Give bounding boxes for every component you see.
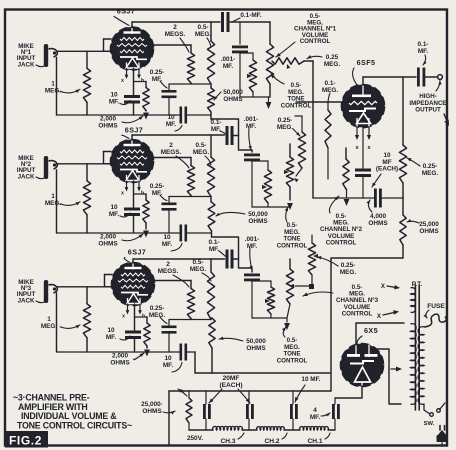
svg-text:50,000: 50,000 <box>248 211 268 218</box>
svg-text:OHMS: OHMS <box>368 220 388 227</box>
svg-text:2: 2 <box>166 261 170 268</box>
label 10 MF cathode 2 <box>109 204 130 218</box>
resistor 25,000 OHMS right <box>400 198 406 258</box>
capacitor .001-MF ch2 <box>244 154 260 208</box>
svg-text:FUSE: FUSE <box>427 303 445 310</box>
rail wire ch2 <box>132 134 225 136</box>
label 0.25 stage 3 <box>149 305 167 324</box>
svg-text:MEG.: MEG. <box>193 149 210 156</box>
svg-text:0.1-: 0.1- <box>417 41 428 48</box>
fuse symbol <box>424 314 446 327</box>
tube 6SF5 <box>342 85 385 128</box>
capacitor 10MF c <box>290 391 298 430</box>
svg-text:1: 1 <box>51 193 55 200</box>
svg-text:25,000·: 25,000· <box>141 401 163 408</box>
wire chain x211 st3 bottom <box>209 318 215 373</box>
capacitor 0.1-MF ch3 <box>226 250 239 269</box>
label 0.5-MEG stage 3 <box>190 259 211 281</box>
svg-text:MF.: MF. <box>166 121 177 128</box>
capacitor 0.1-MF ch1 coupling <box>221 12 270 32</box>
svg-text:1: 1 <box>51 80 55 87</box>
resistor 0.5-MEG plate stage 2 <box>207 135 214 197</box>
svg-text:10: 10 <box>110 204 118 211</box>
label 10 MF cathode 3 <box>106 327 130 341</box>
capacitor 10 MF cathode stage 2 <box>124 181 140 233</box>
label P.T. <box>412 281 423 288</box>
wire screen to 2MEGS <box>148 158 191 166</box>
resistor 2 MEGS stage 2 <box>187 166 194 197</box>
svg-text:x: x <box>122 314 125 320</box>
resistor 50,000 OHMS ch3 mid <box>252 281 275 318</box>
svg-text:CONTROL: CONTROL <box>342 310 373 317</box>
svg-text:CH.1: CH.1 <box>307 438 322 445</box>
svg-text:25,000: 25,000 <box>419 221 439 228</box>
mike input jack J1 <box>44 44 58 67</box>
label 2 MEGS stage 1 <box>165 24 189 52</box>
svg-text:6SJ7: 6SJ7 <box>125 126 143 135</box>
svg-text:P.T.: P.T. <box>412 281 423 288</box>
label 0.5-MEG stage 1 <box>195 24 212 47</box>
label 0.25-MEG ch2 <box>277 117 300 136</box>
wiper arrow ch1 <box>266 97 272 109</box>
svg-text:(EACH): (EACH) <box>376 166 398 173</box>
svg-text:OHMS: OHMS <box>419 228 439 235</box>
svg-text:MEGS.: MEGS. <box>161 149 182 156</box>
heater leads x h <box>122 304 145 320</box>
svg-text:10 MF.: 10 MF. <box>301 376 320 383</box>
svg-text:MF.: MF. <box>162 241 173 248</box>
caption text <box>13 393 132 431</box>
resistor 25,000 OHMS pot <box>178 389 192 430</box>
choke CH.3 <box>213 426 243 430</box>
choke CH.1 <box>300 427 329 430</box>
capacitor .001-MF ch3 <box>244 274 260 319</box>
svg-text:MEG.: MEG. <box>277 124 294 131</box>
wire screen bottom tie <box>169 319 211 321</box>
svg-text:SW.: SW. <box>424 421 435 427</box>
label 10 MF EACH <box>372 152 398 187</box>
svg-text:CONTROL: CONTROL <box>326 239 357 246</box>
svg-text:0.25-: 0.25- <box>278 117 293 124</box>
label 10 MF coupling 2 <box>162 234 182 251</box>
bus wire stage 1 bottom <box>57 114 180 116</box>
svg-text:JACK: JACK <box>18 61 35 68</box>
svg-text:OHMS: OHMS <box>98 241 118 248</box>
wire screen to 2MEGS <box>149 281 191 289</box>
svg-text:0.25-: 0.25- <box>150 69 165 76</box>
svg-text:x: x <box>367 145 371 151</box>
power plug <box>437 426 448 447</box>
svg-text:OHMS: OHMS <box>246 345 266 352</box>
resistor 2000 OHMS stage 1 <box>143 82 149 120</box>
svg-text:MEGS.: MEGS. <box>165 31 186 38</box>
svg-text:MF.: MF. <box>106 334 117 341</box>
x mark HV2 <box>377 310 399 320</box>
label 0.1-MF ch3 <box>208 239 225 256</box>
svg-text:x: x <box>121 191 124 197</box>
svg-text:10: 10 <box>107 327 115 334</box>
svg-text:6SF5: 6SF5 <box>357 58 376 67</box>
label 10 MF bottom <box>295 376 321 402</box>
heater leads x h <box>121 69 144 85</box>
svg-text:OHMS: OHMS <box>248 218 268 225</box>
bus wire y198 <box>313 197 403 199</box>
capacitor 10 MF coupling stage 3 <box>180 344 196 361</box>
svg-text:6X5: 6X5 <box>364 326 378 335</box>
svg-text:MEG.: MEG. <box>45 87 62 94</box>
label channel3 volume control <box>303 284 379 317</box>
resistor 50,000 OHMS ch1 chain <box>208 84 215 119</box>
resistor 0.1-MEG grid leak <box>325 102 331 179</box>
label 6SF5 <box>353 58 376 85</box>
svg-text:OHMS: OHMS <box>110 360 130 367</box>
wire elbow ch1 to ch2 column <box>211 119 252 152</box>
label 6SJ7 V2 <box>122 126 143 139</box>
svg-text:CH.2: CH.2 <box>264 438 279 445</box>
label 0.1-MF ch2 <box>210 119 225 134</box>
svg-text:0.25-: 0.25- <box>150 305 165 312</box>
wire screen bottom tie <box>169 83 211 85</box>
resistor 1 MEG stage 3 <box>83 287 90 352</box>
resistor 0.5-MEG plate stage 1 <box>207 22 214 84</box>
label MIKE NO3 INPUT JACK <box>17 279 46 304</box>
wire B- box <box>331 258 403 391</box>
label 4 MF <box>310 407 330 421</box>
label MIKE NO1 INPUT JACK <box>17 43 46 68</box>
label 25,000 OHMS bottom <box>141 401 175 415</box>
transformer core <box>415 285 419 410</box>
wire 6X5 cathode out <box>335 387 362 399</box>
label 2,000 OHMS stage 2 <box>98 234 143 248</box>
svg-text:x: x <box>121 78 124 84</box>
svg-text:.001-: .001- <box>221 56 236 63</box>
label channel2 volume control <box>320 196 363 246</box>
label 0.25 MEG ch1 <box>307 54 340 68</box>
arrow to winding <box>391 366 402 371</box>
label 50,000 OHMS ch1 <box>214 89 243 103</box>
svg-text:CH.3: CH.3 <box>220 438 235 445</box>
svg-text:MF.: MF. <box>211 126 222 133</box>
svg-text:2: 2 <box>169 142 173 149</box>
label 4,000 OHMS <box>366 200 388 227</box>
resistor volume control ch2 0.5meg <box>343 148 350 206</box>
resistor 0.5-MEG plate stage 3 <box>207 259 214 320</box>
label 1 MEG stage 1 <box>45 80 80 94</box>
label .001-MF ch3 <box>245 236 260 270</box>
resistor 0.25-MEG ch2 <box>294 116 306 182</box>
capacitor 0.25-MF stage 2 <box>162 197 177 234</box>
svg-text:MF.: MF. <box>310 414 321 421</box>
svg-text:MF.: MF. <box>109 211 120 218</box>
svg-text:0.1-MF.: 0.1-MF. <box>240 12 262 19</box>
capacitor 10MF vertical <box>374 189 382 208</box>
label 50,000 OHMS ch3 <box>219 337 266 352</box>
svg-text:2,000: 2,000 <box>100 116 116 123</box>
label 0.5-MEG stage 2 <box>193 142 211 165</box>
svg-text:MF.: MF. <box>109 99 120 106</box>
switch SW <box>430 403 445 416</box>
wire plate pin <box>132 259 134 263</box>
rail wire ch3 <box>133 258 225 260</box>
wire cathode junction <box>134 81 147 83</box>
svg-text:50,000: 50,000 <box>246 338 266 345</box>
svg-text:10: 10 <box>167 114 175 121</box>
label 6X5 <box>357 326 378 346</box>
label 0.25-MEG right <box>407 158 438 177</box>
label 10 MF coupling 1 <box>166 114 182 131</box>
svg-text:10: 10 <box>110 92 118 99</box>
svg-text:MF.: MF. <box>418 48 429 55</box>
svg-text:50,000: 50,000 <box>223 89 243 96</box>
resistor 50,000 OHMS ch1 <box>240 53 257 97</box>
wire 6X5 plate top <box>356 323 404 345</box>
wire cathode junction <box>134 193 147 195</box>
svg-text:MF.: MF. <box>247 243 258 250</box>
svg-text:x: x <box>355 145 359 151</box>
svg-text:6SJ7: 6SJ7 <box>117 7 135 16</box>
svg-text:250V.: 250V. <box>187 435 203 442</box>
label 0.25 stage 2 <box>150 183 167 201</box>
capacitor 10 MF coupling stage 1 <box>180 107 212 124</box>
resistor 50,000 OHMS ch2 chain <box>208 197 215 238</box>
svg-text:1: 1 <box>47 316 51 323</box>
heater leads x h <box>121 181 144 197</box>
bus wire stage 2 bottom <box>57 232 180 234</box>
svg-text:X: X <box>377 313 382 320</box>
label tone control ch2 <box>277 207 308 249</box>
output ground pin <box>444 114 449 126</box>
svg-text:0.25-: 0.25- <box>150 183 165 190</box>
svg-text:6SJ7: 6SJ7 <box>128 248 146 257</box>
capacitor 20MF a <box>203 391 211 430</box>
capacitor 10 MF cathode stage 1 <box>124 69 140 116</box>
label 20MF EACH <box>209 375 250 403</box>
label 6SJ7 V3 <box>124 248 146 263</box>
svg-text:OUTPUT: OUTPUT <box>415 107 441 114</box>
svg-text:MF.: MF. <box>163 362 174 369</box>
label tone control ch3 <box>277 327 308 364</box>
svg-text:MEG.: MEG. <box>340 269 357 276</box>
resistor tone control ch3 <box>284 259 294 330</box>
label 1 MEG stage 2 <box>45 193 80 207</box>
wire screen to 2MEGS <box>148 45 191 53</box>
svg-text:0.1-: 0.1- <box>324 80 335 87</box>
capacitor 20MF b <box>246 391 254 430</box>
resistor volume control ch1 0.5-MEG <box>266 22 273 97</box>
svg-text:CONTROL: CONTROL <box>300 38 331 45</box>
label MIKE NO2 INPUT JACK <box>17 155 46 180</box>
capacitor .001-MF ch1 <box>232 46 248 98</box>
capacitor 10 MF cathode stage 3 <box>125 304 141 352</box>
svg-text:CONTROL: CONTROL <box>277 357 308 364</box>
capacitor 0.25-MF stage 1 <box>162 84 177 115</box>
label .001-MF ch1 <box>221 56 236 70</box>
label 0.1-MF output <box>417 41 428 65</box>
svg-text:MF.: MF. <box>246 123 257 130</box>
wire 6SF5 grid <box>296 101 342 103</box>
resistor tone pot 0.25 MEG ch1 horizontal <box>272 58 304 69</box>
svg-text:.001-: .001- <box>245 236 260 243</box>
tube 6SJ7 V1 <box>111 27 154 70</box>
FIG.2 box <box>5 431 48 448</box>
svg-text:OHMS: OHMS <box>142 408 162 415</box>
svg-text:MEG.: MEG. <box>149 312 166 319</box>
wire tone to grid x313 <box>304 61 313 198</box>
bus wire stage 3 bottom <box>57 351 180 353</box>
wire cathode junction <box>135 316 148 318</box>
svg-text:2,000: 2,000 <box>100 234 116 241</box>
mike input jack J2 <box>44 156 58 179</box>
wire st3 output to box <box>195 352 331 373</box>
label 0.1-MF ch1 <box>233 12 262 22</box>
svg-text:CONTROL: CONTROL <box>281 102 312 109</box>
resistor 2 MEGS stage 1 <box>187 53 194 84</box>
label 2,000 OHMS stage 3 <box>110 353 144 367</box>
label 6SJ7 V1 <box>114 7 135 26</box>
label CH.2 <box>264 433 287 445</box>
wire jack sleeve to bus <box>56 51 58 115</box>
resistor 2000 OHMS stage 3 <box>144 317 150 357</box>
wire ch2 bus <box>252 206 290 208</box>
wire jack sleeve to bus <box>56 287 58 352</box>
capacitor 0.1-MF output <box>417 68 425 87</box>
capacitor 0.25-MF stage 3 <box>162 320 177 353</box>
capacitor 0.1-MF ch2 <box>226 126 239 145</box>
svg-text:0.5-: 0.5- <box>197 24 208 31</box>
wire elbow ch2 to ch3 column <box>212 237 253 272</box>
label SW <box>424 421 435 427</box>
label 50,000 OHMS ch2 <box>216 211 268 225</box>
label CH.3 <box>220 433 244 445</box>
wire primary bottom to switch <box>424 404 430 414</box>
resistor 0.25-MEG plate 6SF5 <box>399 77 406 198</box>
svg-text:0.25-: 0.25- <box>341 262 356 269</box>
svg-text:0.25-: 0.25- <box>423 163 438 170</box>
tube 6SJ7 V2 <box>111 140 154 183</box>
svg-text:MEG.: MEG. <box>195 31 212 38</box>
svg-text:MEG.: MEG. <box>45 200 62 207</box>
rail wire ch1 <box>132 21 220 23</box>
wire jack to grid <box>57 286 112 288</box>
svg-text:20MF: 20MF <box>223 375 240 382</box>
svg-text:MEG.: MEG. <box>190 266 207 273</box>
label FUSE <box>423 303 445 318</box>
wire plate pin <box>131 135 133 140</box>
label 0.1-MEG <box>322 80 339 104</box>
svg-text:JACK: JACK <box>18 173 35 180</box>
label HIGH-IMPEDANCE OUTPUT <box>409 81 446 114</box>
heater leads 6SF5 <box>355 127 372 151</box>
svg-text:TONE CONTROL CIRCUITS~: TONE CONTROL CIRCUITS~ <box>17 420 132 430</box>
svg-text:2,000: 2,000 <box>112 353 128 360</box>
svg-text:CONTROL: CONTROL <box>277 242 308 249</box>
resistor 1 MEG stage 1 <box>83 51 90 115</box>
capacitor 10 MF coupling stage 2 <box>180 225 212 242</box>
label CH.1 <box>307 433 330 445</box>
wire ch1 to .001 <box>239 22 241 44</box>
wire 6SF5 plate <box>363 77 416 85</box>
label 1 MEG stage 3 <box>41 316 80 330</box>
svg-text:FIG.2: FIG.2 <box>9 434 42 448</box>
label 0.25-MEG ch3 <box>317 256 356 276</box>
svg-text:OHMS: OHMS <box>98 123 118 130</box>
tube 6SJ7 V3 <box>112 263 155 306</box>
wire tube left bracket <box>105 275 113 287</box>
resistor 1 MEG stage 2 <box>83 164 90 233</box>
resistor 0.25-MEG ch3 <box>308 235 318 286</box>
svg-text:4,000: 4,000 <box>370 213 386 220</box>
svg-text:10: 10 <box>163 234 171 241</box>
label 25,000 OHMS right <box>407 219 439 235</box>
transformer secondary winding <box>411 324 417 405</box>
svg-text:JACK: JACK <box>18 297 35 304</box>
svg-text:4: 4 <box>313 407 317 414</box>
svg-text:MF.: MF. <box>223 63 234 70</box>
label .001-MF ch2 <box>244 116 259 150</box>
label 2 MEGS stage 2 <box>161 142 189 168</box>
capacitor 4MF <box>332 398 340 430</box>
filter box left edge <box>168 391 170 445</box>
svg-text:X: X <box>381 283 386 290</box>
junction dot ch3 <box>295 284 314 289</box>
wire screen bottom tie <box>169 196 211 198</box>
mike input jack J3 <box>44 280 58 303</box>
label 10 MF cathode 1 <box>109 92 130 106</box>
label 2 MEGS stage 3 <box>158 261 189 287</box>
svg-text:10: 10 <box>164 355 172 362</box>
resistor tone control ch2 <box>284 144 294 210</box>
filter rail <box>169 390 331 392</box>
svg-text:MF.: MF. <box>209 246 220 253</box>
transformer HV winding top <box>411 288 416 313</box>
svg-text:MEGS.: MEGS. <box>158 268 179 275</box>
wire 6SF5 cathode <box>362 127 364 168</box>
wire tube left bracket <box>104 39 112 51</box>
svg-text:MEG.: MEG. <box>41 323 58 330</box>
resistor 2000 OHMS stage 2 <box>143 194 149 238</box>
capacitor 10MF cathode 6SF5 <box>355 169 371 199</box>
svg-text:MEG.: MEG. <box>324 61 341 68</box>
wire jack to grid <box>57 163 111 165</box>
label 10 MF coupling 3 <box>163 355 182 372</box>
label 250V <box>187 435 203 442</box>
svg-text:0.25: 0.25 <box>326 54 339 61</box>
wire 6X5 plate right <box>375 349 401 404</box>
wire jack to grid <box>57 50 111 52</box>
x mark HV1 <box>381 283 400 290</box>
svg-text:.001-: .001- <box>244 116 259 123</box>
wire ch1 bus <box>240 96 270 98</box>
tube 6X5 <box>341 344 384 387</box>
wire jack sleeve to bus <box>56 164 58 233</box>
wire tube left bracket <box>104 152 112 164</box>
svg-text:2: 2 <box>173 24 177 31</box>
svg-text:0.1-: 0.1- <box>210 119 221 126</box>
svg-text:MEG.: MEG. <box>422 170 439 177</box>
resistor 50,000 OHMS ch2 <box>252 161 272 207</box>
transformer primary winding <box>418 327 424 405</box>
label 0.25 stage 1 <box>150 69 167 88</box>
output terminal <box>426 75 443 80</box>
svg-text:0.5-: 0.5- <box>192 259 203 266</box>
label tone control ch1 <box>271 74 312 109</box>
svg-text:0.5-: 0.5- <box>195 142 206 149</box>
label 2,000 OHMS stage 1 <box>98 116 143 130</box>
wire ch3 bus <box>252 317 287 319</box>
svg-text:0.1-: 0.1- <box>208 239 219 246</box>
choke CH.2 <box>257 427 285 430</box>
choke bus <box>189 429 335 431</box>
